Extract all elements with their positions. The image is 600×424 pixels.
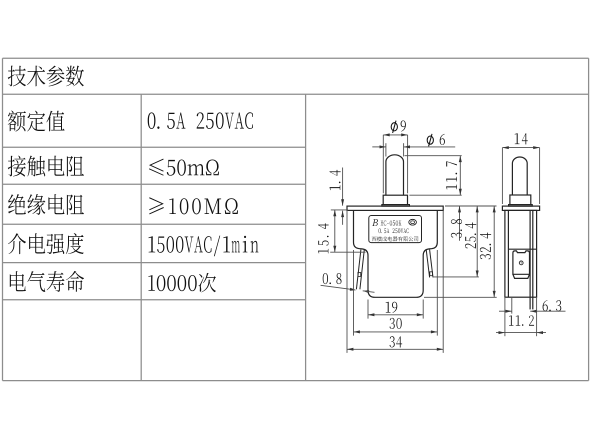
30 right arrow <box>431 330 437 333</box>
19 right arrow <box>417 313 423 316</box>
30 left extension line <box>353 250 355 336</box>
front view: plunger shaft with domed top <box>386 155 404 195</box>
11.7 top extension line (plunger top) <box>405 155 462 157</box>
phi6 left dim segment <box>372 146 386 148</box>
6.3 right dim segment <box>530 310 565 312</box>
11.2 right arrow (outside) <box>537 331 543 334</box>
label 电气寿命 <box>10 271 26 291</box>
side view: inner left line <box>507 210 509 297</box>
dim text 11.2 <box>509 315 514 325</box>
side view: body outline <box>505 210 537 297</box>
0.8 leader line <box>321 285 353 289</box>
dim text 11.7 <box>446 185 457 190</box>
side view: inner right line 1 <box>529 210 531 297</box>
value ≥100MΩ <box>149 197 164 214</box>
label plate: certification oval <box>409 219 417 225</box>
label plate: 0.5A 250VAC <box>379 228 381 233</box>
label 接触电阻 <box>8 156 26 177</box>
dim text 9 <box>401 120 406 131</box>
label plate: HC-050K <box>381 220 384 225</box>
phi symbol of phi9 <box>391 123 397 131</box>
1.4 up arrow <box>341 211 344 217</box>
25.4 bottom arrow <box>476 271 479 277</box>
right terminal pin: right edge <box>430 250 433 278</box>
side view: pin left edge below body <box>529 297 531 309</box>
side view: rivet circle <box>519 261 523 265</box>
table: divider between table and drawing <box>305 94 307 380</box>
15.4 up arrow <box>333 210 336 216</box>
32.4 bottom extension line (body bottom) <box>424 296 497 298</box>
6.3 left extension line <box>511 298 513 314</box>
14 right arrow <box>533 146 539 149</box>
value 0.5A 250VAC <box>148 112 156 129</box>
front view: plunger collar (phi9) <box>383 195 407 204</box>
32.4 top arrow <box>493 206 496 212</box>
phi9 dimension line <box>383 134 407 136</box>
0.8 leader tail <box>363 291 375 293</box>
row line under 绝缘电阻 <box>3 223 306 225</box>
phi6 right extension line <box>403 143 405 156</box>
0.8 right-pointing arrow <box>350 288 357 291</box>
front view: bushing base step <box>382 205 410 207</box>
left extension line at flange bottom <box>331 209 348 211</box>
phi symbol of phi6 <box>427 136 433 144</box>
phi9 left arrow <box>383 133 389 136</box>
front view: label plate <box>369 216 422 243</box>
11.7 bottom extension line (collar top) <box>409 194 461 196</box>
table: column divider <box>140 94 142 380</box>
phi6 right dim segment <box>404 146 456 148</box>
25.4 top arrow <box>476 206 479 212</box>
side view: recess bottom chamfer <box>513 274 530 278</box>
value 10000次 <box>148 275 155 291</box>
34 left arrow <box>347 348 353 351</box>
right terminal pin: left edge <box>426 250 429 278</box>
header 技术参数 <box>8 66 26 87</box>
11.2 left extension line <box>504 298 506 336</box>
left terminal pin: hole <box>358 273 361 277</box>
phi9 right arrow <box>401 133 407 136</box>
30 dimension line <box>354 331 438 333</box>
left terminal pin: left edge <box>356 250 361 290</box>
11.2 right extension line <box>536 298 538 336</box>
label 绝缘电阻 <box>8 194 26 214</box>
15.4 bottom extension line <box>330 251 365 253</box>
14 left arrow <box>502 146 508 149</box>
34 right extension line <box>442 210 444 353</box>
label plate: logo B <box>372 219 378 226</box>
34 dimension line <box>347 348 443 350</box>
15.4 dimension line <box>334 210 336 252</box>
row line under 接触电阻 <box>3 183 306 185</box>
14 dimension line <box>502 147 539 149</box>
19 left extension line <box>367 300 369 319</box>
1.4 upper dim line <box>342 168 344 206</box>
6.3 right arrow (outside) <box>530 310 536 313</box>
value ≤50mΩ <box>149 159 164 176</box>
table: outer left border <box>2 58 4 380</box>
15.4 down arrow <box>333 246 336 252</box>
25.4 dimension line <box>476 206 478 277</box>
table: outer right border <box>588 58 590 380</box>
dim text 19 <box>386 302 391 313</box>
11.7 bottom arrow <box>459 189 462 195</box>
3.8 dimension line <box>459 206 461 241</box>
19 right extension line <box>422 300 424 319</box>
32.4 bottom arrow <box>493 291 496 297</box>
dim text 30 <box>390 318 395 329</box>
14 left extension line <box>501 148 503 204</box>
side view: inner right line 2 <box>532 210 534 297</box>
front view: switch body outline <box>354 210 438 297</box>
table: outer bottom border <box>3 380 589 382</box>
phi6 left extension line <box>385 143 387 156</box>
side view: bushing base step <box>509 205 533 207</box>
right extension line from flange top <box>445 205 497 207</box>
side view: mounting flange <box>502 206 539 210</box>
11.7 top arrow <box>459 156 462 162</box>
phi9 right extension line <box>407 135 409 193</box>
dim text 32.4 <box>480 254 491 259</box>
value 1500VAC/1min <box>149 236 156 252</box>
34 left extension line <box>346 210 348 353</box>
side view: plunger with domed top <box>512 157 527 195</box>
phi6 right arrow (outside) <box>404 145 410 148</box>
11.2 left arrow (outside) <box>499 331 505 334</box>
dim text 15.4 <box>318 249 328 254</box>
dim text 0.8 <box>323 273 328 284</box>
6.3 left dim segment <box>499 310 512 312</box>
30 right extension line <box>436 250 438 336</box>
side view: plunger collar <box>510 195 531 205</box>
3.8 arrow <box>458 206 461 212</box>
34 right arrow <box>437 348 443 351</box>
11.2 dimension line <box>496 332 546 334</box>
dim text 25.4 <box>465 243 476 248</box>
row line under 额定值 <box>3 146 306 148</box>
table: header divider line <box>3 93 589 95</box>
label 额定值 <box>8 110 26 131</box>
side view: terminal recess panel <box>513 251 530 274</box>
row line under 电气寿命 <box>3 299 306 301</box>
dim text 6.3 <box>543 300 548 311</box>
phi9 left extension line <box>382 135 384 193</box>
side view: pin right edge below body <box>532 297 534 309</box>
19 left arrow <box>368 313 374 316</box>
dim text 1.4 <box>330 185 341 190</box>
1.4 lower dim line <box>342 211 344 225</box>
dim text 34 <box>390 336 395 347</box>
30 left arrow <box>354 330 360 333</box>
front view: mounting flange <box>347 206 443 210</box>
dim text 6 <box>440 134 445 145</box>
14 right extension line <box>539 148 541 204</box>
label 介电强度 <box>8 233 26 254</box>
dim text 3.8 <box>451 233 462 238</box>
25.4 bottom extension line (pin tip) <box>433 276 479 278</box>
table: outer top border <box>3 57 589 59</box>
phi6 left arrow (outside) <box>380 145 386 148</box>
left terminal pin: right edge <box>360 250 364 290</box>
dim text 14 <box>515 133 520 144</box>
right terminal pin: hole <box>430 272 433 276</box>
1.4 down arrow <box>341 199 344 205</box>
side view: recess top line <box>508 248 536 250</box>
19 dimension line <box>368 314 423 316</box>
row line under 介电强度 <box>3 262 306 264</box>
11.7 dimension line <box>459 156 461 196</box>
0.8 left-pointing arrow <box>363 290 370 293</box>
32.4 dimension line <box>493 206 495 297</box>
label plate: company name <box>372 237 377 242</box>
6.3 left arrow (outside) <box>505 310 511 313</box>
